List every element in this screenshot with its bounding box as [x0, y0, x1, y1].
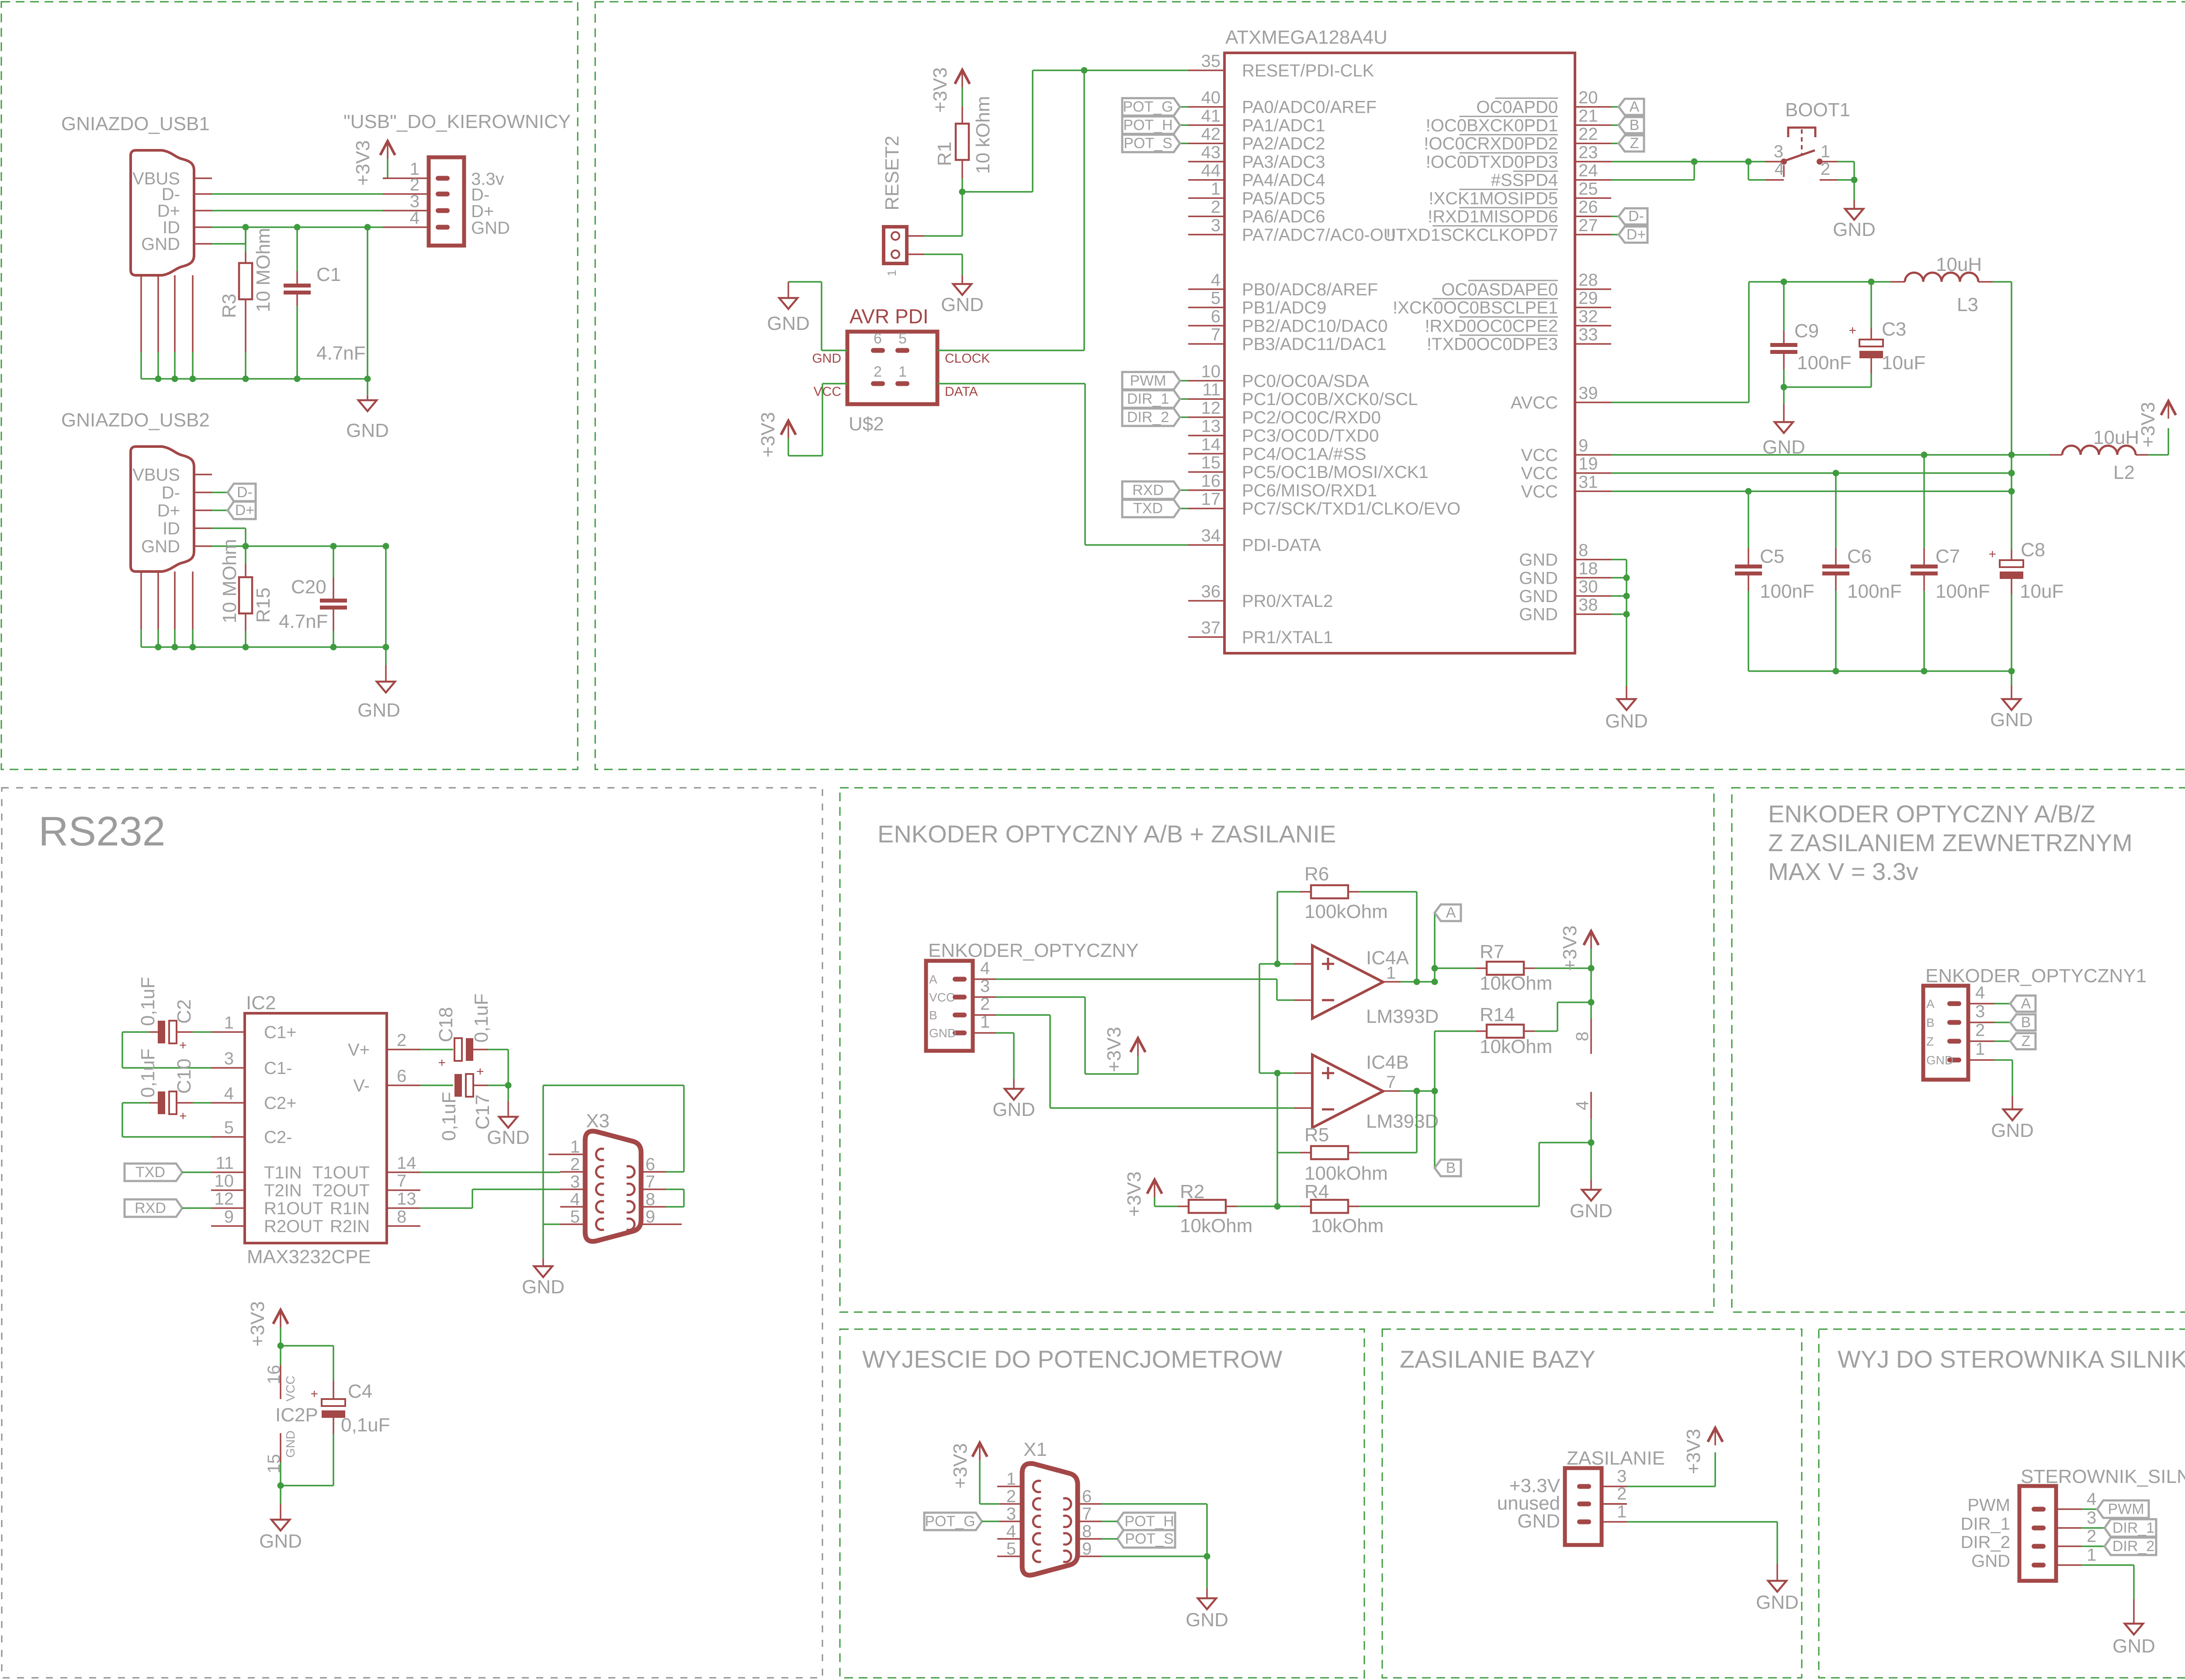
svg-text:GND: GND — [1186, 1609, 1228, 1631]
wire — [1693, 162, 1695, 180]
wire — [122, 1102, 149, 1104]
svg-text:PWM: PWM — [1967, 1496, 2010, 1515]
supply +3V3 — [781, 421, 796, 435]
svg-text:!OC0BXCK0PD1: !OC0BXCK0PD1 — [1426, 116, 1558, 135]
supply +3V3 — [1147, 1180, 1162, 1194]
svg-text:10 kOhm: 10 kOhm — [972, 96, 994, 174]
wire — [2081, 1545, 2105, 1547]
flag TXD — [125, 1164, 182, 1181]
flag POT_G — [924, 1513, 982, 1530]
IC4B pin 5 — [1294, 1072, 1312, 1074]
svg-text:+3V3: +3V3 — [1124, 1171, 1145, 1217]
svg-text:11: 11 — [1202, 380, 1221, 399]
svg-text:GND: GND — [1833, 219, 1876, 240]
svg-text:D-: D- — [1628, 208, 1644, 225]
ground — [1768, 1581, 1786, 1592]
resistor R14 — [1487, 1025, 1524, 1038]
wire — [1783, 369, 1785, 387]
node junction — [1921, 668, 1928, 675]
wire — [385, 546, 387, 647]
svg-text:8: 8 — [397, 1207, 406, 1226]
svg-text:GND: GND — [284, 1431, 297, 1458]
svg-text:PA4/ADC4: PA4/ADC4 — [1242, 171, 1325, 190]
wire — [193, 1102, 211, 1104]
wire — [212, 226, 383, 228]
svg-text:GND: GND — [992, 1099, 1035, 1120]
wire — [787, 438, 789, 456]
wire — [1853, 162, 1855, 180]
svg-text:2: 2 — [2087, 1527, 2096, 1546]
svg-text:C8: C8 — [2021, 539, 2045, 561]
svg-text:2: 2 — [1975, 1021, 1985, 1040]
svg-text:R2OUT: R2OUT — [264, 1217, 323, 1236]
wire — [1359, 891, 1417, 893]
svg-text:C18: C18 — [435, 1007, 457, 1043]
svg-text:LM393D: LM393D — [1366, 1006, 1439, 1027]
svg-text:2: 2 — [980, 994, 990, 1014]
wire — [245, 546, 246, 564]
svg-text:7: 7 — [397, 1171, 406, 1191]
wire — [1853, 180, 1855, 200]
svg-text:C7: C7 — [1935, 546, 1960, 567]
wire — [245, 352, 246, 379]
wire — [666, 1188, 684, 1190]
node junction — [1921, 452, 1928, 458]
svg-text:ZASILANIE: ZASILANIE — [1567, 1448, 1665, 1469]
svg-text:10uF: 10uF — [2020, 581, 2064, 602]
capacitor C3 (polarized) — [1859, 339, 1883, 358]
svg-text:8: 8 — [1578, 541, 1588, 560]
svg-text:1: 1 — [1211, 179, 1221, 198]
BOOT1 pin 1 — [1823, 161, 1838, 163]
capacitor C1 — [284, 284, 311, 294]
ground — [1845, 209, 1863, 220]
wire — [1871, 281, 1890, 283]
node junction — [2008, 668, 2015, 675]
svg-text:26: 26 — [1578, 197, 1598, 217]
wire — [1435, 1030, 1476, 1032]
flag PWM — [2097, 1500, 2149, 1518]
X3 pin 1 stub — [548, 1153, 560, 1155]
svg-text:1: 1 — [224, 1013, 234, 1032]
wire — [788, 281, 822, 283]
svg-text:1: 1 — [570, 1137, 580, 1157]
svg-text:X3: X3 — [586, 1110, 610, 1132]
wire — [141, 378, 368, 380]
wire — [174, 629, 176, 647]
STEROWNIK pin 3 — [2056, 1527, 2081, 1529]
node junction — [364, 376, 371, 382]
svg-text:PB3/ADC11/DAC1: PB3/ADC11/DAC1 — [1242, 335, 1387, 354]
wire — [2148, 454, 2168, 456]
svg-text:3: 3 — [2087, 1508, 2096, 1528]
wire — [542, 1224, 544, 1258]
wire — [280, 1346, 281, 1365]
svg-text:PC5/OC1B/MOSI/XCK1: PC5/OC1B/MOSI/XCK1 — [1242, 463, 1429, 482]
wire — [1434, 1031, 1436, 1091]
node RESET net — [1081, 67, 1088, 74]
svg-text:T1IN: T1IN — [264, 1163, 302, 1182]
wire — [822, 383, 847, 384]
USB2 shield lead — [174, 572, 176, 629]
svg-text:ENKODER OPTYCZNY A/B/Z: ENKODER OPTYCZNY A/B/Z — [1768, 800, 2095, 828]
svg-text:CLOCK: CLOCK — [945, 351, 990, 366]
wire — [212, 545, 386, 547]
svg-text:GND: GND — [259, 1531, 302, 1552]
wire — [1084, 997, 1086, 1074]
wire — [2012, 1060, 2013, 1096]
svg-text:+: + — [476, 1064, 484, 1079]
svg-text:"USB"_DO_KIEROWNICY: "USB"_DO_KIEROWNICY — [343, 111, 571, 132]
wire — [1180, 416, 1188, 418]
svg-text:IC2: IC2 — [246, 992, 276, 1014]
svg-text:A: A — [1630, 99, 1640, 115]
svg-text:PC2/OC0C/RXD0: PC2/OC0C/RXD0 — [1242, 408, 1381, 427]
wire — [245, 528, 246, 546]
svg-text:C1-: C1- — [264, 1059, 292, 1078]
wire — [1206, 1556, 1208, 1588]
supply +3V3 — [972, 1443, 987, 1457]
wire — [182, 1171, 211, 1173]
node junction — [277, 1343, 284, 1349]
USB1 shield lead — [157, 275, 159, 352]
wire — [1180, 125, 1188, 126]
svg-text:GND: GND — [2112, 1635, 2155, 1657]
svg-text:1: 1 — [885, 270, 898, 277]
wire — [1154, 1197, 1155, 1206]
USB2 shield lead — [140, 572, 142, 629]
svg-text:3: 3 — [224, 1049, 234, 1068]
supply +3V3 — [2161, 401, 2176, 415]
svg-text:D+: D+ — [1627, 226, 1646, 243]
RESET2 pin 2 — [907, 253, 924, 255]
svg-text:GND: GND — [522, 1276, 565, 1298]
wire — [1611, 179, 1694, 181]
flag D- — [1619, 208, 1647, 225]
svg-text:AVCC: AVCC — [1511, 393, 1558, 412]
wire — [157, 352, 159, 379]
wire — [961, 254, 963, 275]
svg-text:0,1uF: 0,1uF — [137, 977, 159, 1026]
svg-text:8: 8 — [1573, 1032, 1592, 1041]
pin D+ — [194, 509, 212, 511]
flag D+ — [228, 502, 256, 519]
svg-text:Z ZASILANIEM ZEWNETRZNYM: Z ZASILANIEM ZEWNETRZNYM — [1768, 829, 2133, 856]
svg-text:WYJESCIE DO POTENCJOMETROW: WYJESCIE DO POTENCJOMETROW — [862, 1345, 1282, 1373]
wire — [1277, 1152, 1300, 1153]
svg-text:10kOhm: 10kOhm — [1180, 1215, 1252, 1237]
svg-text:GND: GND — [141, 235, 180, 254]
X3 right pins — [641, 1171, 666, 1173]
connector X1 (DB9) — [1022, 1463, 1078, 1575]
svg-text:2: 2 — [570, 1155, 580, 1174]
flag RXD — [125, 1199, 182, 1217]
svg-text:GND: GND — [346, 420, 389, 441]
svg-text:40: 40 — [1201, 88, 1221, 107]
svg-text:GND: GND — [1519, 605, 1558, 624]
wire — [1237, 1205, 1277, 1207]
ground — [1617, 699, 1636, 710]
op-amp IC4B LM393D — [1312, 1055, 1383, 1128]
capacitor C20 — [320, 599, 347, 610]
flag POT_G — [1122, 98, 1180, 116]
pin VBUS — [194, 474, 212, 475]
svg-text:Z: Z — [2022, 1033, 2031, 1050]
node junction — [1623, 575, 1630, 581]
wire — [1835, 473, 1837, 548]
node junction — [277, 1483, 284, 1489]
wire — [924, 235, 962, 237]
svg-text:RXD: RXD — [135, 1200, 166, 1216]
svg-text:R14: R14 — [1480, 1004, 1515, 1025]
wire — [788, 455, 822, 457]
svg-text:12: 12 — [215, 1189, 234, 1209]
X1 left pins — [999, 1486, 1022, 1487]
svg-text:3: 3 — [1774, 142, 1783, 161]
wire — [122, 1031, 149, 1033]
svg-text:PA1/ADC1: PA1/ADC1 — [1242, 116, 1325, 135]
svg-text:B: B — [1630, 117, 1640, 133]
node junction — [243, 543, 249, 550]
svg-text:Z: Z — [1926, 1035, 1934, 1048]
wire — [182, 1207, 211, 1209]
wire — [1259, 1072, 1277, 1074]
svg-text:R1OUT: R1OUT — [264, 1199, 323, 1218]
node junction — [243, 224, 249, 231]
wire — [996, 1032, 1014, 1034]
svg-text:GND: GND — [941, 294, 984, 315]
wire — [121, 1032, 123, 1068]
svg-text:POT_H: POT_H — [1124, 1513, 1174, 1530]
flag DIR_1 — [1122, 390, 1180, 408]
wire — [1180, 508, 1188, 509]
node junction — [364, 224, 371, 231]
IC4 pin 4 (V-) — [1590, 1092, 1592, 1119]
svg-text:D-: D- — [237, 484, 253, 501]
wire — [1748, 591, 1749, 671]
svg-text:D+: D+ — [157, 501, 180, 520]
wire — [333, 546, 334, 578]
ground — [377, 682, 395, 693]
capacitor C10 (polarized) — [158, 1091, 177, 1114]
X1 right pins — [1078, 1503, 1102, 1505]
ground — [1198, 1598, 1216, 1609]
wire — [1611, 577, 1627, 579]
svg-text:DIR_2: DIR_2 — [1127, 409, 1169, 426]
ground — [358, 400, 377, 411]
wire — [982, 1521, 999, 1522]
node junction — [330, 543, 337, 550]
node junction — [505, 1082, 512, 1089]
svg-text:21: 21 — [1578, 106, 1598, 125]
header pin 1 — [383, 177, 429, 179]
wire — [924, 253, 962, 255]
wire — [280, 1486, 281, 1504]
node junction — [1414, 1088, 1420, 1095]
node junction — [1588, 999, 1595, 1006]
svg-text:38: 38 — [1578, 596, 1598, 615]
X1 pin 4 stub — [997, 1538, 999, 1540]
node junction — [330, 644, 337, 651]
svg-text:1: 1 — [1975, 1039, 1985, 1059]
svg-text:PA5/ADC5: PA5/ADC5 — [1242, 189, 1325, 208]
wire — [1155, 1205, 1178, 1207]
wire — [1611, 125, 1619, 126]
svg-text:R4: R4 — [1304, 1181, 1329, 1202]
capacitor C7 — [1911, 565, 1938, 575]
svg-text:5: 5 — [1211, 289, 1221, 308]
wire — [1870, 282, 1872, 328]
capacitor C9 — [1770, 343, 1797, 354]
resistor R2 — [1189, 1200, 1226, 1213]
svg-text:16: 16 — [264, 1365, 284, 1385]
svg-text:1: 1 — [980, 1012, 990, 1032]
svg-text:D+: D+ — [235, 502, 254, 519]
svg-text:LM393D: LM393D — [1366, 1111, 1439, 1132]
wire — [1923, 455, 1925, 548]
ground — [1775, 422, 1793, 433]
node junction — [1588, 1140, 1595, 1146]
wire — [1102, 1538, 1117, 1540]
STEROWNIK pin 1 — [2056, 1564, 2081, 1566]
svg-text:PC1/OC0B/XCK0/SCL: PC1/OC0B/XCK0/SCL — [1242, 390, 1418, 409]
IC4A pin 3 — [1294, 963, 1312, 965]
flag B — [2010, 1014, 2036, 1031]
wire — [1838, 179, 1854, 181]
svg-text:A: A — [929, 973, 937, 986]
svg-text:4: 4 — [1211, 270, 1221, 290]
svg-text:16: 16 — [1201, 471, 1221, 491]
IC4A pin 1 — [1383, 981, 1401, 983]
chip U1 ATXMEGA128A4U — [1224, 53, 1575, 653]
resistor R7 — [1487, 962, 1524, 975]
wire — [1611, 454, 2012, 456]
wire — [1013, 1033, 1015, 1079]
svg-text:1: 1 — [1006, 1469, 1016, 1489]
wire — [383, 177, 388, 179]
wire — [141, 646, 386, 648]
wire — [488, 1049, 508, 1050]
X1 pin 1 stub — [997, 1486, 999, 1487]
svg-text:+3V3: +3V3 — [950, 1443, 971, 1489]
wire — [1085, 544, 1188, 546]
svg-text:C4: C4 — [348, 1381, 372, 1402]
svg-text:100nF: 100nF — [1847, 581, 1902, 602]
svg-text:C2: C2 — [173, 999, 195, 1024]
connector X3 (DB9) — [585, 1131, 641, 1241]
svg-text:GND: GND — [141, 537, 180, 556]
frame RS232 section — [2, 788, 822, 1678]
supply +3V3 — [1131, 1038, 1145, 1052]
svg-text:PWM: PWM — [2108, 1501, 2144, 1517]
wire — [961, 178, 963, 192]
wire — [122, 1067, 211, 1069]
wire — [543, 1223, 560, 1225]
USB2 shield lead — [192, 572, 194, 629]
svg-text:+3V3: +3V3 — [1683, 1429, 1704, 1474]
svg-text:22: 22 — [1578, 125, 1598, 144]
wire — [212, 492, 228, 493]
svg-text:GND: GND — [1570, 1200, 1613, 1222]
svg-text:PA7/ADC7/AC0-OUT: PA7/ADC7/AC0-OUT — [1242, 225, 1407, 245]
svg-text:DIR_1: DIR_1 — [2112, 1520, 2154, 1536]
svg-text:OC0APD0: OC0APD0 — [1476, 98, 1558, 117]
wire — [1590, 1143, 1592, 1180]
flag POT_S — [1117, 1530, 1175, 1548]
svg-text:C3: C3 — [1882, 319, 1906, 340]
wire — [1835, 591, 1837, 671]
wire — [1611, 491, 2012, 492]
svg-text:12: 12 — [1201, 398, 1221, 418]
svg-text:8: 8 — [645, 1190, 655, 1209]
svg-text:10 MOhm: 10 MOhm — [219, 539, 240, 623]
wire — [507, 1085, 509, 1101]
svg-text:GND: GND — [1605, 710, 1648, 732]
svg-text:DIR_2: DIR_2 — [2112, 1538, 2154, 1555]
node junction — [1781, 279, 1787, 285]
svg-text:B: B — [1446, 1160, 1456, 1176]
svg-text:37: 37 — [1201, 618, 1221, 637]
wire — [420, 1084, 453, 1086]
connector GNIAZDO_USB2 (USB jack) — [131, 447, 194, 572]
wire — [1416, 1091, 1418, 1153]
node junction — [2008, 488, 2015, 495]
wire — [387, 159, 388, 178]
svg-text:C1: C1 — [316, 264, 341, 285]
flag A — [2010, 995, 2036, 1012]
svg-text:3: 3 — [1975, 1002, 1985, 1021]
ground — [2003, 1109, 2022, 1120]
frame USB section — [1, 2, 578, 769]
USB1 shield lead — [140, 275, 142, 352]
node junction — [1833, 470, 1839, 476]
svg-text:ENKODER_OPTYCZNY1: ENKODER_OPTYCZNY1 — [1925, 965, 2147, 987]
svg-text:L3: L3 — [1957, 294, 1978, 315]
svg-text:!OC0DTXD0PD3: !OC0DTXD0PD3 — [1426, 152, 1558, 172]
wire — [212, 527, 246, 529]
supply +3V3 — [955, 70, 970, 84]
node junction — [243, 376, 249, 382]
capacitor C17 (polarized) — [454, 1074, 473, 1097]
wire — [1277, 999, 1294, 1001]
flag D- — [228, 484, 256, 501]
wire — [1611, 234, 1619, 236]
IC2P pin 16 VCC — [280, 1365, 281, 1399]
svg-text:!TXD0OC0DPE3: !TXD0OC0DPE3 — [1427, 335, 1558, 354]
svg-text:4.7nF: 4.7nF — [316, 343, 366, 364]
svg-text:A: A — [1446, 904, 1456, 921]
svg-text:10uF: 10uF — [1882, 352, 1925, 374]
svg-text:10 MOhm: 10 MOhm — [253, 228, 274, 312]
wire — [666, 1171, 684, 1173]
wire — [1032, 70, 1034, 192]
pin VBUS — [194, 177, 212, 179]
node junction — [190, 644, 196, 651]
svg-text:+3V3: +3V3 — [352, 140, 374, 186]
connector ENKODER_OPTYCZNY — [926, 961, 973, 1051]
wire — [212, 509, 228, 511]
svg-text:+3V3: +3V3 — [1103, 1027, 1125, 1072]
wire — [1137, 1056, 1139, 1074]
frame encoder A/B/Z section — [1732, 788, 2185, 1312]
ground — [1582, 1190, 1600, 1201]
svg-text:R1: R1 — [934, 142, 955, 166]
IC4B pin 7 — [1383, 1090, 1401, 1092]
node junction — [383, 543, 389, 550]
svg-text:100nF: 100nF — [1797, 352, 1852, 374]
IC2 left pin stubs — [211, 1031, 245, 1033]
supply +3V3 — [1708, 1428, 1723, 1442]
